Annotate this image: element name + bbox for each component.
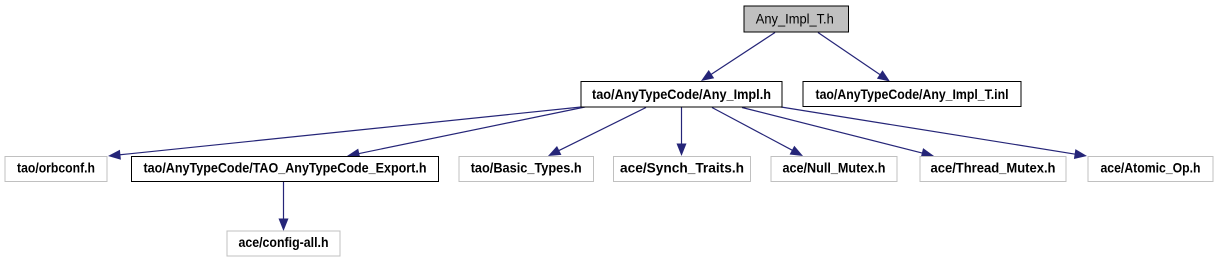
edge tao/AnyTypeCode/TAO_AnyTypeCode_Export.h -> ace/config-all.h bbox=[279, 182, 289, 232]
edge tao/AnyTypeCode/Any_Impl.h -> tao/Basic_Types.h bbox=[548, 108, 646, 157]
svg-text:tao/AnyTypeCode/Any_Impl_T.inl: tao/AnyTypeCode/Any_Impl_T.inl bbox=[816, 87, 1009, 102]
edge tao/AnyTypeCode/Any_Impl.h -> tao/AnyTypeCode/TAO_AnyTypeCode_Export.h bbox=[347, 107, 585, 158]
node tao/AnyTypeCode/Any_Impl.h bbox=[581, 82, 782, 108]
svg-text:tao/AnyTypeCode/TAO_AnyTypeCod: tao/AnyTypeCode/TAO_AnyTypeCode_Export.h bbox=[144, 161, 427, 176]
edge Any_Impl_T.h -> tao/AnyTypeCode/Any_Impl.h bbox=[701, 33, 775, 82]
node ace/Null_Mutex.h bbox=[771, 157, 897, 182]
node ace/Thread_Mutex.h bbox=[920, 157, 1066, 182]
edge tao/AnyTypeCode/Any_Impl.h -> ace/Atomic_Op.h bbox=[781, 107, 1087, 159]
svg-text:ace/Synch_Traits.h: ace/Synch_Traits.h bbox=[620, 161, 744, 176]
node Any_Impl_T.h bbox=[744, 6, 849, 32]
svg-text:ace/Atomic_Op.h: ace/Atomic_Op.h bbox=[1101, 161, 1201, 176]
edge tao/AnyTypeCode/Any_Impl.h -> ace/Synch_Traits.h bbox=[677, 108, 687, 157]
node tao/AnyTypeCode/Any_Impl_T.inl bbox=[803, 82, 1021, 107]
svg-text:ace/Thread_Mutex.h: ace/Thread_Mutex.h bbox=[931, 161, 1056, 176]
svg-text:ace/Null_Mutex.h: ace/Null_Mutex.h bbox=[783, 161, 886, 176]
svg-text:tao/AnyTypeCode/Any_Impl.h: tao/AnyTypeCode/Any_Impl.h bbox=[592, 87, 771, 102]
node tao/orbconf.h bbox=[5, 157, 107, 182]
svg-text:Any_Impl_T.h: Any_Impl_T.h bbox=[756, 12, 834, 27]
node ace/config-all.h bbox=[227, 231, 340, 256]
svg-text:ace/config-all.h: ace/config-all.h bbox=[239, 235, 329, 250]
node ace/Synch_Traits.h bbox=[614, 157, 751, 182]
node tao/AnyTypeCode/TAO_AnyTypeCode_Export.h bbox=[132, 157, 439, 182]
edge Any_Impl_T.h -> tao/AnyTypeCode/Any_Impl_T.inl bbox=[818, 33, 890, 82]
edge tao/AnyTypeCode/Any_Impl.h -> tao/orbconf.h bbox=[108, 107, 581, 160]
edge tao/AnyTypeCode/Any_Impl.h -> ace/Null_Mutex.h bbox=[712, 108, 803, 157]
node tao/Basic_Types.h bbox=[459, 157, 594, 182]
svg-text:tao/Basic_Types.h: tao/Basic_Types.h bbox=[471, 161, 582, 176]
edge tao/AnyTypeCode/Any_Impl.h -> ace/Thread_Mutex.h bbox=[742, 108, 934, 158]
svg-text:tao/orbconf.h: tao/orbconf.h bbox=[17, 161, 95, 176]
node ace/Atomic_Op.h bbox=[1088, 157, 1213, 182]
